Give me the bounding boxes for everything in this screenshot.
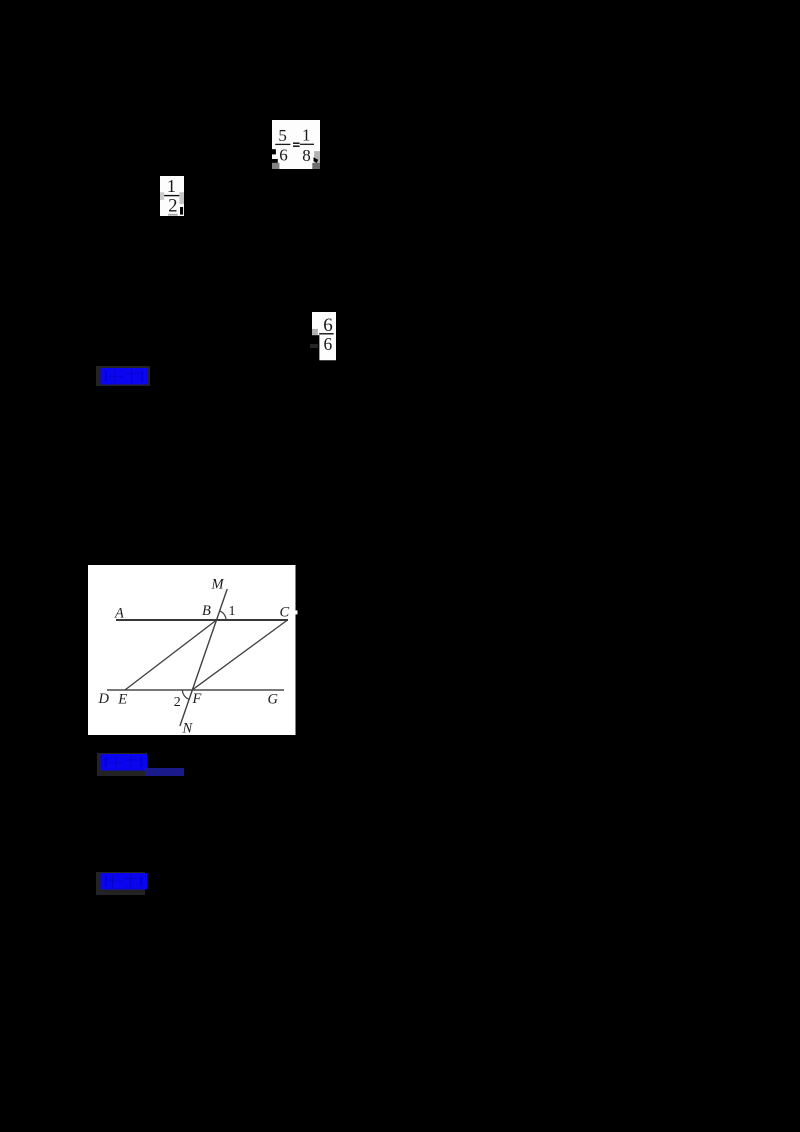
navy hyperlink bar bbox=[145, 768, 185, 776]
svg-text:B: B bbox=[202, 603, 211, 619]
math image: fraction 1/2 bbox=[160, 176, 184, 216]
svg-text:N: N bbox=[182, 720, 194, 735]
svg-text:6: 6 bbox=[323, 315, 333, 336]
svg-text:1: 1 bbox=[229, 604, 236, 619]
angle 1 arc at B bbox=[220, 611, 226, 620]
svg-text:D: D bbox=[98, 691, 110, 707]
faint residue left of 6/6 bbox=[310, 344, 318, 348]
svg-text:5: 5 bbox=[278, 126, 287, 145]
transversal MN bbox=[180, 589, 227, 726]
math image: fraction 5/6 = 1/8 bbox=[272, 120, 320, 169]
segment FC bbox=[192, 620, 287, 690]
svg-text:2: 2 bbox=[168, 197, 177, 216]
svg-text:C: C bbox=[280, 605, 290, 621]
svg-text:2: 2 bbox=[174, 695, 181, 710]
geometry figure bbox=[88, 565, 298, 735]
svg-text:A: A bbox=[114, 606, 124, 622]
blue label 3 bbox=[96, 872, 145, 895]
top line AC bbox=[116, 619, 288, 621]
blue label 2 bbox=[97, 753, 147, 776]
svg-text:8: 8 bbox=[302, 146, 311, 165]
angle 2 arc at F bbox=[182, 690, 189, 699]
svg-text:M: M bbox=[211, 577, 225, 593]
svg-text:6: 6 bbox=[279, 146, 288, 165]
blue label 1 bbox=[96, 366, 150, 386]
svg-text:F: F bbox=[192, 691, 202, 707]
bottom line DG bbox=[107, 689, 284, 691]
segment EB bbox=[125, 620, 216, 690]
svg-text:1: 1 bbox=[167, 176, 176, 196]
svg-text:G: G bbox=[268, 692, 279, 708]
svg-text:E: E bbox=[117, 692, 127, 708]
svg-text:1: 1 bbox=[302, 125, 311, 144]
svg-text:6: 6 bbox=[324, 334, 333, 354]
math image: fraction 6/6 bbox=[312, 312, 336, 361]
